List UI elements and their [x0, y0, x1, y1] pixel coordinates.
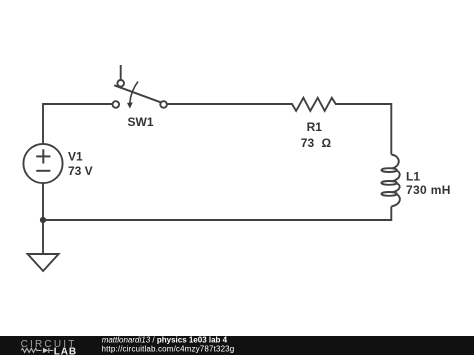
- svg-text:730 mH: 730 mH: [406, 183, 451, 197]
- svg-text:L1: L1: [406, 170, 420, 184]
- svg-text:SW1: SW1: [128, 115, 154, 129]
- svg-text:73 Ω: 73 Ω: [301, 136, 332, 150]
- svg-text:mattlonardi13 / physics 1e03 l: mattlonardi13 / physics 1e03 lab 4: [102, 336, 228, 345]
- svg-text:V1: V1: [68, 150, 83, 164]
- svg-text:LAB: LAB: [54, 347, 77, 355]
- svg-text:http://circuitlab.com/c4mzy787: http://circuitlab.com/c4mzy787t323g: [102, 345, 235, 354]
- svg-text:73 V: 73 V: [68, 164, 93, 178]
- svg-text:R1: R1: [307, 120, 323, 134]
